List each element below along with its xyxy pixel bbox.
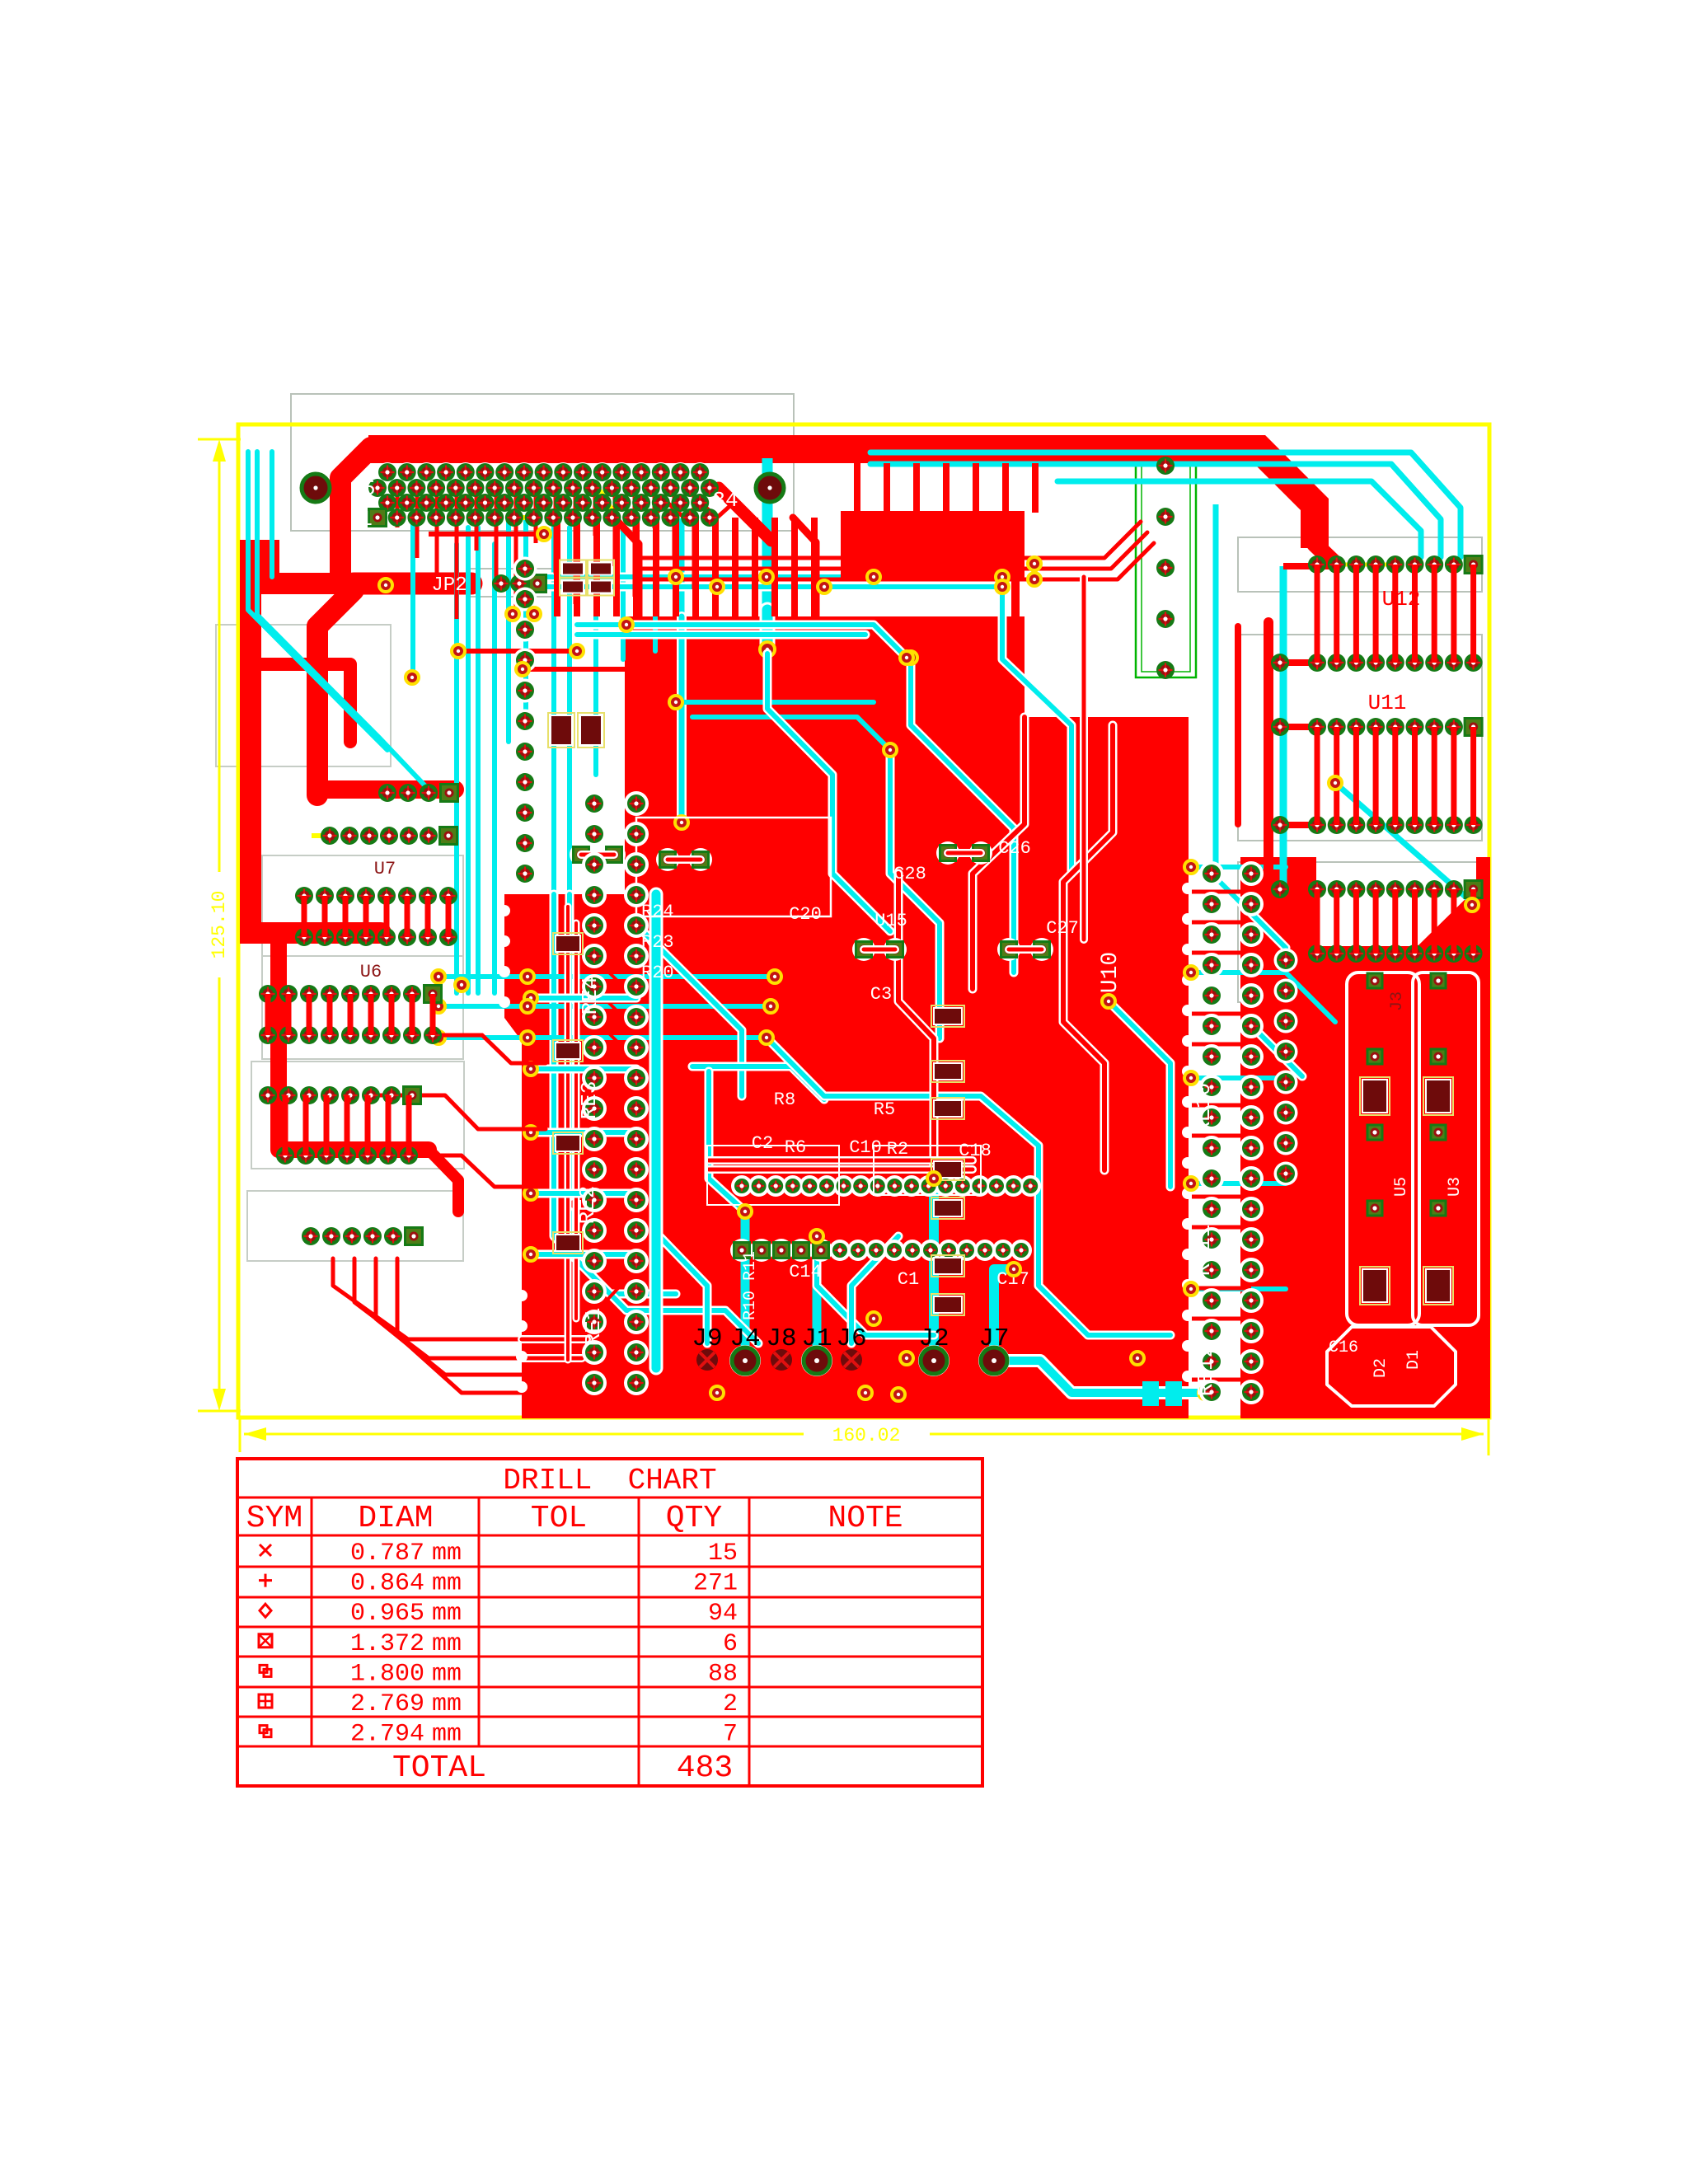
wire cyan mid horiz 2 [540,583,1002,592]
dim line horizontal 160.02 [244,1433,804,1436]
svg-text:R6: R6 [785,1137,806,1158]
connector U5 rows [259,1086,277,1104]
svg-text:R24: R24 [641,902,674,922]
component right strip smds [931,1005,964,1027]
courtyard left U7 area [216,625,391,766]
svg-text:C18: C18 [959,1141,992,1161]
wire red right hook 2 [1235,626,1241,824]
svg-text:RE12: RE12 [1193,1345,1218,1396]
svg-text:7: 7 [723,1721,738,1749]
connector U7 rows [295,887,313,905]
wire cyan drop f [551,527,556,894]
wire JP2 diag down [317,590,354,795]
svg-text:RE3: RE3 [577,1081,602,1120]
wire red trio 2 [635,532,1147,569]
pour trace cyan 4 [692,1066,824,1099]
svg-text:RE10: RE10 [1191,1083,1216,1134]
mount hole right [756,474,784,502]
wire red left fan 4 [397,1258,522,1393]
svg-text:R23: R23 [641,932,674,953]
wire yellow bit a [509,515,534,520]
wire red drop block [554,518,560,616]
svg-text:C1: C1 [898,1269,919,1290]
wire cyan right bundle 2 [870,464,1441,557]
pour trace cyan 14 [570,1212,758,1343]
wire cyan drop g [567,527,572,894]
wire cyan J7 route [994,1269,1014,1358]
courtyard connector J10 [291,394,794,531]
svg-text:C16: C16 [1329,1338,1358,1357]
wire cyan right bundle 1 [870,452,1461,557]
wire cyan center h pair1 [438,974,775,979]
svg-text:1: 1 [359,507,373,532]
copper pour central [522,616,1189,1418]
wire red strip bars [1192,890,1251,894]
wire cyan J2 drop [929,1179,939,1358]
svg-text:RE11: RE11 [1191,1225,1216,1276]
svg-text:TOL: TOL [531,1501,587,1536]
svg-text:C20: C20 [789,904,822,925]
wire cyan corner diag [270,452,274,577]
courtyard U11 [1238,635,1482,841]
pad extra col right [1271,654,1289,672]
pad column RE right 2 [1239,861,1264,886]
svg-text:J9: J9 [692,1324,722,1353]
courtyard right green frame [1136,455,1196,677]
svg-text:RE1: RE1 [581,1308,606,1347]
wire cyan drop c [476,527,481,993]
svg-text:U11: U11 [1368,691,1407,715]
pad cluster mid [852,938,875,961]
connector J10 row3 [378,494,396,512]
svg-text:94: 94 [708,1600,738,1628]
pour trace cyan 15 [659,1236,707,1343]
connector J10 row2 [368,479,387,497]
svg-text:C28: C28 [893,864,926,884]
wire cyan right vert 2 [1280,566,1287,886]
dim witness left-bottom ext [239,1418,241,1452]
svg-text:mm: mm [432,1630,462,1658]
pad cluster c26 [936,841,959,865]
courtyard U5 block [251,1062,464,1169]
wire cyan center h pair3 [438,1035,767,1040]
svg-text:mm: mm [432,1540,462,1568]
pour trace cyan 16 [851,1236,898,1343]
wire cyan center h pair2 [438,1004,771,1009]
pour trace red 6 [1080,577,1088,940]
svg-text:J2: J2 [918,1324,949,1353]
courtyard relay J3 [1317,952,1482,1413]
svg-text:U12: U12 [1382,587,1421,612]
svg-text:U6: U6 [360,962,382,982]
svg-text:R8: R8 [774,1090,795,1110]
pour edge scallops right [1182,883,1193,894]
wire cyan drop k [679,521,685,616]
svg-text:0.965: 0.965 [350,1600,424,1628]
wire cyan drop e [523,521,528,709]
pour trace red 1 [973,717,1025,989]
svg-text:NOTE: NOTE [828,1501,903,1536]
svg-text:J1: J1 [801,1324,832,1353]
svg-text:QTY: QTY [666,1501,723,1536]
wire red drop diag a [614,518,639,616]
wire cyan relay entry [1286,972,1335,1022]
svg-text:U10: U10 [1098,952,1123,993]
wire red band stubs [854,463,860,513]
svg-text:C3: C3 [870,984,892,1005]
wire cyan re right links [1191,865,1286,869]
svg-text:RE2: RE2 [575,1186,600,1225]
svg-text:C10: C10 [849,1137,882,1158]
wire yellow bit b [600,490,612,509]
pour trace cyan 2 [767,654,890,931]
copper pour relay corner [1418,888,1476,946]
wire red left fan 2 [354,1258,522,1358]
svg-text:D1: D1 [1404,1350,1423,1370]
wire cyan u15 horiz [676,700,874,705]
pour trace red fan b [522,1354,582,1362]
courtyard U13 [1238,862,1482,1002]
svg-text:U3: U3 [1446,1177,1465,1197]
svg-text:C2: C2 [752,1133,773,1154]
svg-text:U5: U5 [1392,1177,1411,1197]
svg-text:R2: R2 [887,1139,908,1160]
pour trace cyan 3 [890,750,940,1038]
wire red trio 1 [635,522,1141,558]
wire red left fan 1 [333,1258,522,1339]
wire red right stub c [1268,822,1316,828]
wire red zigzag conn [651,503,734,518]
dim arrow right [1461,1427,1484,1441]
wire red wide diag 34 [719,488,771,541]
wire top band left chamfer [340,448,371,577]
outline J2 white [874,1146,981,1195]
wire yellow bit d [312,833,328,838]
pour trace red fan a [522,1335,587,1343]
pad column A [513,557,537,581]
wire cyan mid horiz 4 [577,630,865,640]
wire left ring top [251,664,350,742]
svg-text:34: 34 [712,488,738,513]
dim arrow left [244,1427,266,1441]
svg-text:125.10: 125.10 [209,891,230,959]
wire cyan mid horiz 3 [577,625,907,658]
relay smds [1360,1077,1390,1115]
vias [452,644,465,658]
wire red zigzag strip [604,907,619,1394]
copper pour bump [841,511,1025,579]
board outline [238,424,1489,1418]
top band pad notches [377,462,397,482]
wire cyan drop d [506,521,511,742]
svg-text:88: 88 [708,1660,738,1688]
svg-text:1.372: 1.372 [350,1630,424,1658]
connector U7 row0 [321,827,339,845]
svg-text:SYM: SYM [246,1501,302,1536]
svg-text:DRILL CHART: DRILL CHART [503,1464,716,1497]
wire red strip verticals [565,907,572,1360]
wire cyan drop i [621,527,626,659]
wire red conn drops [396,488,400,527]
svg-text:C14: C14 [789,1262,822,1282]
svg-text:C27: C27 [1046,918,1079,939]
wire cyan drop b [466,527,471,993]
svg-text:R10 R11: R10 R11 [741,1251,760,1320]
courtyard U12 [1238,537,1482,592]
svg-text:mm: mm [432,1660,462,1688]
wire cyan bottom right long [994,1361,1205,1393]
wire red horiz 648 [429,532,544,537]
pour trace cyan 13 [554,1197,676,1294]
svg-text:2.769: 2.769 [350,1690,424,1718]
svg-text:15: 15 [708,1540,738,1568]
wire cyan thick left strip [649,894,663,1368]
copper pour left strip [504,894,654,1418]
wire red fan mid c [376,1095,546,1129]
wire cyan drop j [653,527,658,651]
wire red right hook 1 [1264,622,1273,886]
pour edge scallops left [499,905,510,916]
pad row center 2 [829,1240,851,1261]
wire red right stub a [1268,659,1316,666]
wire red left fan 3 [376,1258,522,1375]
connector J pads [696,1349,718,1371]
svg-text:U7: U7 [374,859,396,879]
wire left big C [251,551,381,933]
wire left low vert [279,933,429,1150]
svg-text:0.787: 0.787 [350,1540,424,1568]
wire cyan right bundle 3 [1057,481,1421,557]
svg-text:RE4: RE4 [578,977,603,1015]
wire top band [368,449,1315,548]
svg-text:35: 35 [349,476,375,501]
wire cyan right vert 1 [1213,504,1219,865]
pour trace cyan 7 [767,1038,1170,1335]
svg-text:271: 271 [693,1570,738,1598]
dim arrow up [213,439,226,462]
dim line vertical 125.10 [218,445,221,872]
connector JB2 top row [378,784,396,802]
svg-text:J7: J7 [978,1324,1009,1353]
connector J10 row1 [378,463,396,481]
pad row center long [731,1175,753,1197]
dim arrow down [213,1389,226,1411]
wire cyan strip links [531,994,636,1003]
courtyard bottom left conn [247,1191,463,1261]
svg-text:JP2: JP2 [431,574,467,597]
courtyard JP2 [467,569,552,597]
wire yellow bit c [1331,563,1399,567]
wire cyan J4 drop [741,1212,750,1358]
outline U15 white [636,818,831,916]
wire red drop diag b [793,518,816,616]
pour trace cyan 9 [709,1071,745,1212]
pour trace red 4 [898,874,934,1179]
wire cyan left pair [248,452,387,750]
wire left hook top [317,780,455,799]
wire cyan right diag [1335,783,1472,902]
pour trace cyan 8 [1109,1001,1170,1187]
connector bottom-left row [302,1227,320,1245]
relay outline group [1347,972,1419,1325]
svg-text:J4: J4 [729,1324,760,1353]
svg-text:J8: J8 [766,1324,796,1353]
wire JP2 bar [354,573,471,595]
svg-text:mm: mm [432,1600,462,1628]
pad column green frame [1156,457,1175,475]
svg-text:2.794: 2.794 [350,1721,424,1749]
component left strip smds [553,933,583,954]
pad column relay left [1274,949,1298,972]
pad cluster c20 [656,848,679,871]
pour trace cyan 11 [1212,874,1286,948]
pad column B [582,791,607,816]
svg-text:1.800: 1.800 [350,1660,424,1688]
wire cyan J1 drop [813,1236,822,1358]
svg-text:mm: mm [432,1690,462,1718]
pour trace cyan 1 [635,923,742,1096]
svg-text:J6: J6 [836,1324,866,1353]
svg-text:TOTAL: TOTAL [392,1750,486,1786]
pour trace red 5 [709,1156,973,1165]
connector U11 [1308,718,1326,736]
connector J10 row4 [369,509,387,527]
pad cluster c27 [997,938,1020,961]
relay pads [1367,973,1382,988]
svg-text:0.864: 0.864 [350,1570,424,1598]
wire cyan drop h [593,521,598,775]
pour trace cyan 10 [817,1236,934,1335]
connector U6 rows [259,985,277,1003]
component C smd pair [548,713,574,748]
connector U13 [1308,880,1326,898]
svg-text:2: 2 [723,1690,738,1718]
wire red fan mid a [429,1035,546,1063]
pour trace cyan 6 [1002,587,1071,874]
wire red trio 3 [635,543,1154,579]
connector U12 [1308,555,1326,574]
wire cyan thick vertical [762,458,773,610]
outline center white [707,1146,839,1205]
dim witness top-left [198,438,241,441]
wire cyan u15 horiz2 [692,717,890,750]
svg-text:R5: R5 [874,1099,895,1120]
pour trace cyan 5 [911,658,1014,972]
svg-text:DIAM: DIAM [358,1501,433,1536]
mount hole left [302,474,330,502]
svg-text:483: 483 [677,1750,733,1786]
svg-text:mm: mm [432,1570,462,1598]
dim witness right-bottom ext [1488,1411,1490,1455]
pad squares C14 row [730,1239,753,1262]
wire red right stub b [1268,724,1316,730]
svg-text:mm: mm [432,1721,462,1749]
copper pour right strip [1240,857,1490,1418]
pour trace cyan 12 [1251,1025,1302,1076]
wire red jp2 links [462,649,577,654]
svg-text:J3: J3 [1388,991,1407,1011]
drill chart table [237,1459,982,1786]
pad column C [624,791,649,816]
wire cyan drop a [410,519,415,676]
courtyard U7 [262,855,463,956]
wire red bump neck [1011,575,1020,621]
svg-text:6: 6 [723,1630,738,1658]
dim witness bottom-left [198,1410,241,1413]
svg-text:D2: D2 [1371,1358,1390,1378]
pad column RE right 1 [1199,861,1224,886]
wire left low diag [429,1150,458,1212]
component bottom cyan caps [1142,1381,1159,1406]
component R1 R2 smd quad [560,560,586,578]
connector JP2 pads [492,574,510,593]
wire cyan mid horiz 1 [540,573,1002,582]
svg-text:U15: U15 [874,911,907,931]
pour trace red 2 [1063,725,1113,1170]
wire red right top stub [1283,563,1341,569]
courtyard U6 [262,956,463,1059]
pad cluster c22 [570,843,593,866]
wire red fan mid b [412,1155,546,1187]
svg-text:R20: R20 [641,963,674,983]
svg-text:C26: C26 [998,838,1031,859]
svg-text:160.02: 160.02 [832,1425,901,1446]
